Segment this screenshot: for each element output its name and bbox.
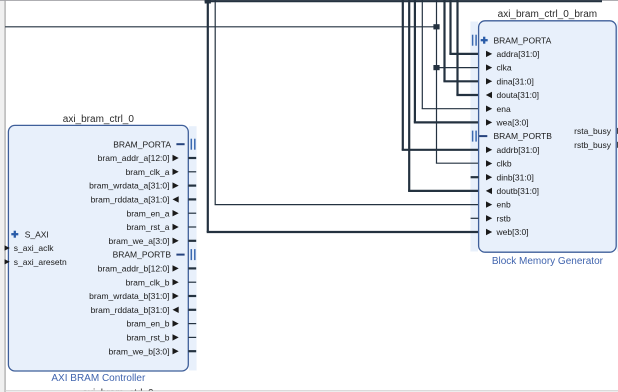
svg-text:bram_we_a[3:0]: bram_we_a[3:0]: [109, 236, 170, 246]
pin bram_en_b of axi_bram_ctrl_0 with stub: [126, 319, 196, 329]
svg-text:rstb: rstb: [497, 213, 511, 223]
clipped block title fragment at bottom edge: [82, 388, 154, 392]
svg-text:doutb[31:0]: doutb[31:0]: [497, 186, 540, 196]
pin bram_wrdata_a[31:0] of axi_bram_ctrl_0 with stub: [89, 181, 196, 191]
pin bram_en_a of axi_bram_ctrl_0 with stub: [126, 208, 196, 218]
svg-text:BRAM_PORTA: BRAM_PORTA: [113, 139, 171, 149]
wire clock net horizontal to clka: [437, 67, 479, 69]
svg-text:BRAM_PORTA: BRAM_PORTA: [494, 35, 552, 45]
svg-text:Block Memory Generator: Block Memory Generator: [492, 256, 604, 267]
pin halo band right of axi_bram_ctrl_0: [189, 126, 197, 370]
svg-text:axi_bram_ctrl_0_bram: axi_bram_ctrl_0_bram: [498, 9, 598, 20]
interface pin BRAM_PORTA of axi_bram_ctrl_0_bram with gadget and interface stub: [473, 35, 552, 46]
svg-text:s_axi_aclk: s_axi_aclk: [14, 243, 54, 253]
block axi_bram_ctrl_0_bram body: [479, 21, 617, 252]
wire net addrb horizontal to addrb[31:0]: [402, 149, 479, 151]
svg-text:bram_addr_a[12:0]: bram_addr_a[12:0]: [98, 153, 170, 163]
wire net doutb vertical: [408, 0, 410, 191]
svg-text:bram_rst_b: bram_rst_b: [127, 333, 170, 343]
wire net douta vertical: [456, 0, 458, 95]
svg-text:bram_rddata_a[31:0]: bram_rddata_a[31:0]: [91, 195, 170, 205]
pin rstb of axi_bram_ctrl_0_bram: [471, 213, 511, 223]
svg-text:dinb[31:0]: dinb[31:0]: [497, 172, 534, 182]
svg-text:clkb: clkb: [497, 159, 512, 169]
pin bram_wrdata_b[31:0] of axi_bram_ctrl_0 with stub: [89, 291, 196, 301]
svg-text:BRAM_PORTB: BRAM_PORTB: [113, 250, 172, 260]
interface pin BRAM_PORTB of axi_bram_ctrl_0_bram with gadget and interface stub: [473, 131, 553, 142]
svg-text:bram_rddata_b[31:0]: bram_rddata_b[31:0]: [91, 305, 170, 315]
pin dina[31:0] of axi_bram_ctrl_0_bram: [486, 76, 534, 86]
svg-text:BRAM_PORTB: BRAM_PORTB: [494, 131, 553, 141]
pin bram_addr_a[12:0] of axi_bram_ctrl_0 with stub: [98, 153, 197, 163]
wire net enb vertical: [214, 0, 216, 205]
wire clock net long horizontal: [5, 26, 436, 28]
canvas bottom border: [5, 390, 618, 392]
pin bram_rddata_b[31:0] of axi_bram_ctrl_0 with stub: [91, 305, 197, 315]
svg-text:bram_addr_b[12:0]: bram_addr_b[12:0]: [98, 264, 170, 274]
svg-text:bram_rst_a: bram_rst_a: [127, 222, 170, 232]
svg-text:AXI BRAM Controller: AXI BRAM Controller: [51, 373, 146, 384]
svg-text:s_axi_aresetn: s_axi_aresetn: [14, 257, 67, 267]
block axi_bram_ctrl_0 body: [8, 125, 188, 371]
pin halo band left of axi_bram_ctrl_0_bram: [470, 22, 478, 252]
svg-text:web[3:0]: web[3:0]: [496, 227, 529, 237]
pin wea[3:0] of axi_bram_ctrl_0_bram: [486, 118, 529, 128]
svg-text:axi_bram_ctrl_0: axi_bram_ctrl_0: [63, 114, 135, 125]
svg-text:bram_clk_b: bram_clk_b: [126, 277, 170, 287]
pin bram_rst_a of axi_bram_ctrl_0 with stub: [127, 222, 197, 232]
wire net wea horizontal to wea[3:0]: [414, 121, 479, 123]
wire net addrb vertical: [402, 0, 404, 150]
pin s_axi_aresetn of axi_bram_ctrl_0: [5, 257, 67, 267]
pin addrb[31:0] of axi_bram_ctrl_0_bram: [486, 145, 540, 155]
pin addra[31:0] of axi_bram_ctrl_0_bram: [486, 49, 540, 59]
pin rstb_busy of axi_bram_ctrl_0_bram: [574, 140, 618, 150]
canvas left border strip: [0, 0, 5, 392]
wire net dina vertical: [443, 0, 445, 81]
svg-text:S_AXI: S_AXI: [25, 229, 49, 239]
interface pin BRAM_PORTB of axi_bram_ctrl_0 with collapse gadget and interface stub: [113, 249, 195, 260]
svg-text:clka: clka: [497, 63, 512, 73]
pin rsta_busy of axi_bram_ctrl_0_bram: [574, 126, 618, 136]
canvas top border: [0, 0, 618, 1]
wire net doutb horizontal to doutb[31:0]: [408, 190, 479, 192]
interface pin BRAM_PORTA of axi_bram_ctrl_0 with collapse gadget and interface stub: [113, 139, 195, 150]
wire net addra vertical: [449, 0, 451, 54]
pin bram_we_a[3:0] of axi_bram_ctrl_0 with stub: [109, 236, 197, 246]
svg-text:bram_wrdata_b[31:0]: bram_wrdata_b[31:0]: [89, 291, 169, 301]
pin bram_rddata_a[31:0] of axi_bram_ctrl_0 with stub: [91, 195, 197, 205]
svg-text:rsta_busy: rsta_busy: [574, 126, 612, 136]
pin clka of axi_bram_ctrl_0_bram: [486, 63, 512, 73]
wire net bram_we_b top horizontal: [205, 0, 602, 2]
junction dot clock net top: [433, 24, 439, 29]
wire clock net horizontal to clkb: [436, 162, 479, 164]
pin bram_rst_b of axi_bram_ctrl_0 with stub: [127, 333, 197, 343]
svg-text:rstb_busy: rstb_busy: [574, 140, 612, 150]
pin bram_addr_b[12:0] of axi_bram_ctrl_0 with stub: [98, 264, 197, 274]
wire net ena vertical: [421, 0, 423, 109]
wire net ena horizontal to ena: [422, 108, 479, 110]
pin dinb[31:0] of axi_bram_ctrl_0_bram: [471, 172, 534, 182]
wire net douta horizontal to douta[31:0]: [456, 94, 478, 96]
svg-text:bram_clk_a: bram_clk_a: [126, 167, 170, 177]
wire clock net vertical: [436, 0, 438, 163]
pin clkb of axi_bram_ctrl_0_bram: [486, 159, 512, 169]
interface pin S_AXI of axi_bram_ctrl_0: [11, 229, 49, 239]
svg-text:addrb[31:0]: addrb[31:0]: [497, 145, 540, 155]
pin ena of axi_bram_ctrl_0_bram: [486, 104, 511, 114]
pin s_axi_aclk of axi_bram_ctrl_0: [5, 243, 55, 253]
pin bram_clk_a of axi_bram_ctrl_0 with stub: [126, 167, 197, 177]
svg-text:ena: ena: [497, 104, 511, 114]
wire net dina horizontal to dina[31:0]: [443, 80, 478, 82]
pin web[3:0] of axi_bram_ctrl_0_bram: [486, 227, 529, 237]
wire net enb horizontal to enb: [215, 204, 479, 206]
svg-text:bram_en_a: bram_en_a: [126, 208, 169, 218]
svg-text:bram_en_b: bram_en_b: [126, 319, 169, 329]
pin bram_clk_b of axi_bram_ctrl_0 with stub: [126, 277, 197, 287]
pin bram_we_b[3:0] of axi_bram_ctrl_0 with stub: [109, 346, 197, 356]
junction dot clock net at clka: [433, 65, 439, 70]
junction dot web net: [205, 0, 211, 3]
svg-text:enb: enb: [497, 200, 511, 210]
wire net addra horizontal to addra[31:0]: [449, 53, 478, 55]
pin enb of axi_bram_ctrl_0_bram: [486, 200, 511, 210]
svg-text:bram_we_b[3:0]: bram_we_b[3:0]: [109, 346, 170, 356]
pin halo band right of axi_bram_ctrl_0_bram: [617, 22, 618, 252]
svg-text:dina[31:0]: dina[31:0]: [497, 76, 534, 86]
wire net web horizontal to web[3:0]: [207, 231, 479, 233]
pin douta[31:0] of axi_bram_ctrl_0_bram: [486, 90, 539, 100]
svg-text:addra[31:0]: addra[31:0]: [497, 49, 540, 59]
svg-text:wea[3:0]: wea[3:0]: [496, 118, 529, 128]
svg-text:douta[31:0]: douta[31:0]: [497, 90, 540, 100]
pin doutb[31:0] of axi_bram_ctrl_0_bram: [486, 186, 539, 196]
wire net wea vertical: [414, 0, 416, 122]
wire net web vertical: [207, 1, 209, 233]
svg-text:bram_wrdata_a[31:0]: bram_wrdata_a[31:0]: [89, 181, 169, 191]
